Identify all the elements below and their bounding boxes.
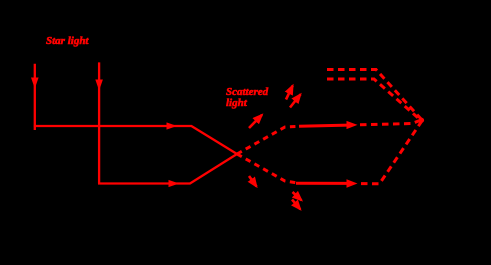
svg-text:Star light: Star light xyxy=(46,35,89,47)
svg-text:light: light xyxy=(226,97,248,109)
